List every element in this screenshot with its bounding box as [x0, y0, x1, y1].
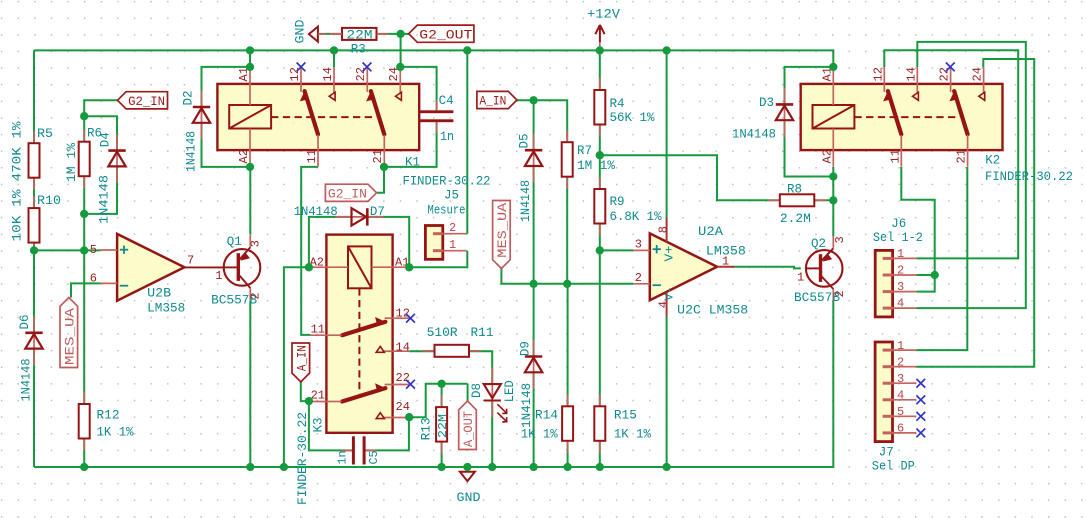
svg-text:11: 11 [311, 323, 325, 337]
wire LED D8 to GND bus [491, 402, 493, 468]
svg-text:6: 6 [897, 422, 904, 436]
svg-text:14: 14 [321, 67, 335, 81]
no-connect J7 pin5 [916, 412, 925, 421]
global label A_IN vertical [292, 343, 310, 382]
junction [463, 46, 471, 54]
svg-text:22M: 22M [436, 414, 450, 438]
junction [246, 463, 254, 471]
resistor R6 [83, 130, 85, 142]
svg-text:Q1: Q1 [227, 235, 242, 249]
svg-text:K3: K3 [312, 418, 326, 433]
diode D2 [201, 91, 203, 140]
U2A pin1 stub [717, 266, 734, 268]
transistor Q1 [224, 249, 261, 286]
U2B pin5 stub [100, 249, 117, 251]
junction [529, 96, 537, 104]
svg-text:GND: GND [457, 491, 481, 505]
svg-text:D2: D2 [182, 91, 196, 106]
relay K1 FINDER-30.22 [217, 84, 419, 150]
global label A_OUT vertical [459, 401, 477, 450]
junction [80, 112, 88, 120]
svg-text:K2: K2 [985, 154, 1000, 168]
junction [596, 463, 604, 471]
svg-text:510R: 510R [427, 326, 458, 340]
wire R3 to G2_OUT [377, 33, 409, 35]
connector J7 [875, 342, 892, 442]
svg-text:1: 1 [449, 238, 456, 252]
junction [80, 246, 88, 254]
junction [488, 463, 496, 471]
junction [396, 63, 404, 71]
svg-text:MES_UA: MES_UA [62, 308, 77, 365]
wire J5 pin2 to +12V bus [466, 50, 468, 233]
svg-text:LM358: LM358 [706, 244, 746, 258]
svg-text:Sel 1-2: Sel 1-2 [873, 231, 923, 245]
wire R13 to GND bus [441, 442, 443, 467]
junction [829, 196, 837, 204]
no-connect K3 pin12 [406, 314, 415, 323]
svg-text:FINDER-30.22: FINDER-30.22 [296, 412, 310, 505]
svg-text:G2_OUT: G2_OUT [419, 27, 472, 42]
wire K2 pin24 to J7 pin2 [916, 59, 1034, 367]
svg-text:C4: C4 [439, 94, 454, 108]
junction [563, 463, 571, 471]
svg-text:24: 24 [396, 400, 410, 414]
wire R6 bottom column to R12 [83, 176, 85, 404]
junction [437, 463, 445, 471]
U2A V+ stub [666, 218, 668, 243]
resistor R3 [330, 33, 342, 35]
svg-text:D5: D5 [518, 134, 532, 149]
wire D3 bottom loop [785, 119, 834, 176]
svg-text:1N4148: 1N4148 [20, 359, 34, 402]
svg-text:D4: D4 [99, 132, 113, 147]
svg-text:1: 1 [797, 271, 804, 285]
wire G2_IN label to R6 top [84, 100, 117, 141]
svg-text:A_OUT: A_OUT [461, 411, 476, 447]
svg-text:2.2M: 2.2M [780, 212, 811, 226]
junction [529, 280, 537, 288]
resistor R9 [599, 177, 601, 189]
junction [563, 280, 571, 288]
capacitor C5 [341, 449, 352, 451]
junction [80, 210, 88, 218]
wire K1 A1 to +12V bus [249, 50, 251, 67]
no-connect J7 pin4 [916, 395, 925, 404]
power symbol +12V [595, 25, 604, 42]
svg-text:D3: D3 [759, 96, 774, 110]
wire K1 pin11 to K3 pin11 [301, 167, 318, 335]
svg-text:V-: V- [662, 287, 676, 301]
svg-text:D7: D7 [370, 205, 385, 219]
svg-text:1N4148: 1N4148 [294, 205, 338, 219]
resistor R5 [33, 131, 35, 143]
junction [280, 463, 288, 471]
relay K2 FINDER-30.22 [801, 84, 1003, 150]
svg-text:1: 1 [897, 339, 904, 353]
svg-text:A2: A2 [820, 149, 834, 163]
diode D3 [784, 88, 786, 137]
wire D9 to GND bus [533, 371, 535, 467]
svg-text:U2A: U2A [698, 225, 723, 239]
wire K2 pin14 to J6 pin4 [916, 42, 1025, 308]
wire R5-R10 link [33, 178, 35, 208]
svg-text:LM358: LM358 [147, 302, 185, 316]
svg-text:U2C LM358: U2C LM358 [677, 304, 748, 318]
svg-text:4: 4 [897, 389, 904, 403]
wire K3 pin21 to C5 left [309, 401, 353, 450]
svg-text:G2_IN: G2_IN [328, 186, 367, 201]
svg-text:5: 5 [90, 243, 97, 257]
op-amp U2A [650, 233, 717, 300]
svg-text:22M: 22M [347, 29, 373, 43]
diode D7 [335, 216, 384, 218]
capacitor C4 [436, 100, 438, 111]
wire R13 node down [441, 384, 443, 407]
global label A_IN top [477, 91, 517, 108]
svg-text:R9: R9 [610, 195, 625, 209]
+12V stub [599, 43, 601, 51]
wire U2A V+ pin to +12V bus [666, 50, 668, 219]
R3 left stub [331, 33, 342, 35]
U2B pin6 stub [100, 282, 117, 284]
junction [305, 263, 313, 271]
svg-text:1M 1%: 1M 1% [65, 143, 79, 182]
svg-text:1: 1 [215, 269, 222, 283]
connector J6 [875, 250, 892, 317]
wire R9 bottom to U2A pin3 [600, 224, 634, 251]
wire R10 bottom to pin5 node [33, 243, 35, 251]
global label G2_IN right [325, 184, 376, 201]
svg-text:3: 3 [897, 280, 904, 294]
svg-text:J6: J6 [891, 217, 906, 231]
svg-text:R3: R3 [351, 43, 366, 57]
wire A_IN label drop to K3 pin21 [301, 382, 309, 401]
global label MES_UA left [60, 298, 78, 368]
wire D9 column top [533, 284, 535, 357]
svg-text:K1: K1 [405, 156, 420, 170]
svg-text:R12: R12 [97, 409, 120, 423]
svg-text:2: 2 [897, 356, 904, 370]
svg-text:1N4148: 1N4148 [519, 180, 533, 222]
U2A V- stub [666, 292, 668, 317]
U2A pin2 stub [633, 283, 650, 285]
svg-text:3: 3 [635, 238, 642, 252]
wire R6 top to D4 branch [84, 116, 117, 150]
wire A_OUT label drop [467, 384, 469, 401]
svg-text:6: 6 [90, 272, 97, 286]
wire G2_OUT to K1 pin24 [400, 34, 402, 67]
svg-text:3: 3 [897, 372, 904, 386]
diode D9 [533, 340, 535, 389]
no-connect J7 pin6 [916, 429, 925, 438]
svg-text:1N4148: 1N4148 [732, 128, 776, 142]
wire K1 coil loop D2 top [202, 67, 251, 108]
svg-text:V+: V+ [662, 246, 676, 262]
wire +12V top bus [34, 50, 833, 67]
junction [596, 246, 604, 254]
junction [396, 30, 404, 38]
no-connect K1 pin12 [297, 63, 306, 72]
junction [829, 63, 837, 71]
junction [596, 46, 604, 54]
wire D7 cathode loop [366, 217, 409, 267]
svg-text:6.8K 1%: 6.8K 1% [610, 210, 662, 224]
wire U2A out to Q2 base [734, 267, 801, 269]
wire K2 pin21 to J7 pin1 [916, 167, 967, 350]
wire D6 to GND bus [33, 349, 35, 467]
wire D4 bottom to R6 bottom [84, 166, 117, 214]
wire K3 pin24 link to R13 node [409, 384, 467, 417]
svg-text:2: 2 [897, 264, 904, 278]
svg-text:R13: R13 [420, 417, 434, 440]
wire K2 pin12 to J6 pin1 [884, 50, 1018, 258]
wire U2B pin6 to MES_UA [71, 283, 100, 297]
svg-text:A2: A2 [237, 149, 251, 163]
diode D6 [33, 316, 35, 365]
wire MES_UA label to U2A pin2 run [501, 269, 633, 284]
svg-text:1N4148: 1N4148 [185, 131, 199, 172]
relay K3 FINDER-30.22 [326, 235, 392, 433]
wire R15 to GND bus [599, 441, 601, 467]
diode D5 [533, 134, 535, 183]
global label G2_OUT [409, 25, 474, 42]
junction [246, 46, 254, 54]
svg-text:7: 7 [187, 254, 194, 268]
svg-text:R15: R15 [614, 408, 637, 422]
resistor R13 [441, 395, 443, 407]
svg-text:1K 1%: 1K 1% [614, 427, 651, 441]
wire D6 column [33, 250, 35, 332]
diode D4 [116, 134, 118, 183]
op-amp U2B [117, 234, 184, 301]
svg-text:C5: C5 [367, 451, 381, 465]
svg-text:R7: R7 [577, 144, 592, 158]
svg-text:1N4148: 1N4148 [520, 383, 534, 428]
svg-text:FINDER-30.22: FINDER-30.22 [985, 170, 1073, 184]
svg-text:4: 4 [897, 297, 904, 311]
wire C5 right to K3 pin24 [364, 417, 409, 450]
wire K1 pin24 to C4 top [400, 67, 436, 110]
svg-text:MES_UA: MES_UA [495, 203, 510, 258]
wire K1 pin14 to +12V bus [333, 50, 335, 67]
junction [662, 46, 670, 54]
wire Q1 emitter to K1 A2 net [249, 167, 251, 235]
svg-text:D9: D9 [519, 341, 533, 356]
wire GND flag to R3 [318, 33, 342, 35]
wire R4 top [599, 50, 601, 90]
svg-text:1K 1%: 1K 1% [521, 427, 558, 441]
wire GND bottom bus [34, 301, 833, 467]
svg-text:21: 21 [954, 149, 968, 163]
svg-text:R11: R11 [471, 326, 494, 340]
junction [246, 163, 254, 171]
wire K3 A2 to GND bus [284, 267, 310, 467]
junction [380, 163, 388, 171]
svg-text:U2B: U2B [147, 287, 171, 301]
U2A pin3 stub [633, 249, 650, 251]
svg-text:1N4148: 1N4148 [98, 175, 112, 224]
svg-text:J7: J7 [879, 445, 894, 459]
wire K1 coil loop D2 bottom [202, 124, 251, 167]
svg-text:D6: D6 [18, 315, 32, 330]
svg-text:LED: LED [503, 380, 517, 402]
svg-text:Sel DP: Sel DP [872, 460, 915, 474]
no-connect K1 pin22 [363, 63, 372, 72]
wire A_IN top label to nodes [517, 100, 567, 142]
svg-text:10K 1%: 10K 1% [11, 189, 25, 241]
svg-text:A_IN: A_IN [479, 94, 506, 109]
no-connect K3 pin22 [406, 380, 415, 389]
junction [80, 463, 88, 471]
junction [405, 413, 413, 421]
junction [662, 463, 670, 471]
wire K2 pin11 to J6 pins 2-3 [901, 167, 934, 292]
wire R14 to GND bus [567, 441, 569, 467]
wire R4-R9 node [599, 125, 601, 190]
junction [596, 151, 604, 159]
svg-text:3: 3 [833, 236, 847, 243]
top GND stub [318, 33, 327, 35]
wire C4 bottom to K1 pin21 [384, 122, 437, 167]
svg-text:14: 14 [396, 341, 410, 355]
svg-text:1n: 1n [336, 451, 350, 465]
junction [405, 263, 413, 271]
svg-text:4: 4 [656, 301, 670, 308]
svg-text:Mesure: Mesure [428, 204, 466, 218]
wire D7 anode loop [309, 217, 352, 267]
resistor R4 [599, 78, 601, 90]
wire R11 to LED D8 [469, 351, 492, 383]
svg-text:R14: R14 [535, 408, 558, 422]
svg-text:22: 22 [396, 371, 410, 385]
junction [931, 271, 939, 279]
svg-text:G2_IN: G2_IN [128, 94, 165, 109]
svg-text:5: 5 [897, 405, 904, 419]
global label G2_IN left [118, 92, 168, 109]
junction [30, 246, 38, 254]
svg-text:2: 2 [249, 292, 263, 299]
wire R14 column [567, 284, 569, 407]
wire U2B out to Q1 base [184, 266, 224, 268]
wire pin5 node horizontal [34, 249, 100, 251]
svg-text:12: 12 [288, 67, 302, 81]
svg-text:J5: J5 [444, 189, 459, 203]
svg-text:56K 1%: 56K 1% [610, 111, 655, 125]
svg-text:22: 22 [937, 67, 951, 81]
wire GND symbol stub [466, 467, 468, 472]
resistor R8 [768, 199, 780, 201]
wire Q1 collector to GND bus [249, 301, 251, 467]
svg-text:470K 1%: 470K 1% [11, 121, 25, 181]
junction [829, 172, 837, 180]
connector J5 [425, 226, 442, 260]
svg-text:22: 22 [354, 67, 368, 81]
svg-text:GND: GND [294, 20, 308, 44]
svg-text:2: 2 [449, 221, 456, 235]
svg-text:1: 1 [897, 247, 904, 261]
no-connect J7 pin3 [916, 379, 925, 388]
wire U2A V- pin to GND bus [666, 316, 668, 467]
svg-text:2: 2 [635, 271, 642, 285]
svg-text:14: 14 [904, 67, 918, 81]
svg-text:1K 1%: 1K 1% [97, 426, 134, 440]
svg-text:8: 8 [656, 226, 670, 233]
resistor R11 [423, 350, 435, 352]
svg-text:+12V: +12V [587, 8, 620, 22]
resistor R10 [33, 196, 35, 208]
transistor Q2 [806, 250, 843, 287]
wire K1 pin21 to G2_IN label [377, 167, 384, 193]
wire pin3 node to R15 [599, 250, 601, 406]
wire D5 top [533, 100, 535, 150]
svg-text:Q2: Q2 [811, 237, 826, 251]
junction [529, 463, 537, 471]
svg-text:2: 2 [833, 290, 847, 297]
svg-text:3: 3 [249, 240, 263, 247]
svg-text:R4: R4 [610, 97, 625, 111]
svg-text:11: 11 [305, 149, 319, 163]
junction [305, 397, 313, 405]
svg-text:R8: R8 [787, 183, 802, 197]
wire D5 bottom to MES_UA net [533, 166, 535, 284]
svg-text:R5: R5 [37, 127, 53, 141]
svg-text:24: 24 [970, 67, 984, 81]
wire R7 bottom to pin2 run [566, 177, 568, 284]
wire J6 pin2 tap [916, 274, 934, 276]
global label MES_UA right [493, 201, 511, 269]
junction [437, 380, 445, 388]
wire K2 A2 column [832, 167, 834, 236]
wire R8 to K2 A2 column [814, 199, 833, 201]
svg-text:FINDER-30.22: FINDER-30.22 [403, 175, 491, 189]
LED D8 [491, 367, 493, 417]
svg-text:21: 21 [371, 149, 385, 163]
R3 right stub [377, 33, 388, 35]
svg-text:A_IN: A_IN [294, 345, 309, 371]
svg-text:1n: 1n [440, 130, 454, 144]
wire R12 to GND bus [83, 439, 85, 468]
resistor R12 [83, 392, 85, 404]
wire R4 node to R8 [600, 155, 780, 200]
resistor R14 [567, 394, 569, 406]
resistor R7 [566, 130, 568, 142]
svg-text:11: 11 [888, 149, 902, 163]
junction [330, 46, 338, 54]
top GND power symbol [309, 27, 318, 42]
wire D3 top loop [785, 67, 834, 105]
junction [463, 463, 471, 471]
no-connect K2 pin22 [946, 63, 955, 72]
svg-text:R10: R10 [37, 194, 61, 208]
junction [246, 63, 254, 71]
svg-text:12: 12 [871, 67, 885, 81]
svg-text:D8: D8 [470, 383, 484, 398]
wire K3 pin14 to R11 [409, 350, 434, 352]
wire left column +12V to R5 [33, 50, 35, 143]
svg-text:1M 1%: 1M 1% [577, 159, 615, 173]
svg-text:12: 12 [396, 307, 410, 321]
wire J5 pin1 to K3 A1 [409, 251, 467, 268]
bottom GND power symbol [460, 472, 475, 481]
resistor R15 [599, 394, 601, 406]
